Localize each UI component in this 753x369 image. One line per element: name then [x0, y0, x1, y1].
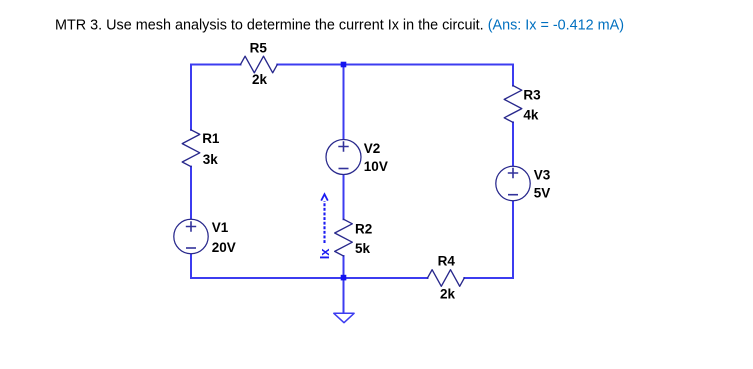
- wire top rail right of R5: [277, 64, 513, 66]
- resistor R1 zigzag: [182, 130, 200, 167]
- wire left rail mid: [190, 167, 192, 220]
- resistor R4 zigzag: [428, 270, 465, 287]
- resistor R2 zigzag: [335, 219, 353, 256]
- V2 plus/minus: [338, 141, 348, 168]
- svg-text:5V: 5V: [534, 185, 551, 200]
- svg-text:V3: V3: [534, 168, 551, 183]
- wire right rail mid: [512, 122, 514, 166]
- wire top rail left of R5: [191, 64, 241, 66]
- wire middle branch upper: [343, 65, 345, 140]
- svg-text:Ix: Ix: [317, 248, 332, 260]
- V1 plus/minus: [186, 221, 196, 248]
- wire right rail lower: [512, 201, 514, 278]
- ground symbol: [334, 313, 354, 322]
- wire middle branch mid: [343, 175, 345, 220]
- source V1 circle: [174, 219, 208, 253]
- svg-text:V2: V2: [364, 141, 381, 156]
- svg-text:MTR 3. Use mesh analysis to de: MTR 3. Use mesh analysis to determine th…: [55, 18, 624, 34]
- svg-text:R4: R4: [438, 254, 456, 269]
- source V3 circle: [496, 166, 530, 200]
- svg-text:R3: R3: [523, 88, 541, 103]
- wire bottom rail left of R4: [191, 277, 428, 279]
- wire left rail lower: [190, 254, 192, 278]
- svg-text:V1: V1: [212, 220, 229, 235]
- svg-text:20V: 20V: [212, 240, 236, 255]
- svg-text:2k: 2k: [252, 72, 268, 87]
- source V2 circle: [326, 140, 361, 175]
- svg-text:5k: 5k: [355, 241, 371, 256]
- svg-text:3k: 3k: [203, 152, 219, 167]
- resistor R5 zigzag: [241, 56, 278, 73]
- svg-text:R1: R1: [202, 131, 220, 146]
- node junction top: [341, 62, 347, 68]
- wire left rail upper: [190, 65, 192, 130]
- node junction bottom: [341, 275, 347, 281]
- svg-text:10V: 10V: [364, 159, 388, 174]
- current arrow Ix (dashed): [321, 194, 328, 243]
- resistor R3 zigzag: [504, 86, 522, 123]
- wire right rail upper: [512, 65, 514, 86]
- wire bottom rail right of R4: [464, 277, 513, 279]
- V3 plus/minus: [508, 168, 518, 195]
- svg-text:2k: 2k: [440, 287, 456, 302]
- svg-text:4k: 4k: [523, 107, 539, 122]
- wire middle branch lower: [343, 256, 345, 278]
- svg-text:R5: R5: [250, 40, 268, 55]
- svg-text:R2: R2: [355, 222, 372, 237]
- ground wire: [343, 278, 345, 313]
